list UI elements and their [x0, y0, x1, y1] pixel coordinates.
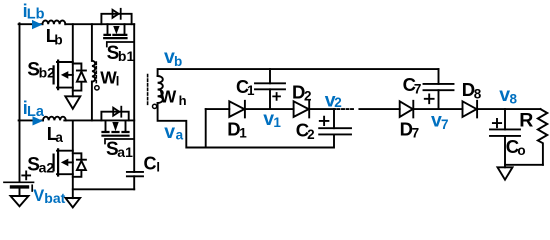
inductor La [43, 117, 66, 121]
ground output [498, 167, 513, 179]
antiparallel diode loop of S_b1 [101, 9, 131, 24]
ground under battery [11, 196, 29, 206]
body diode of S_a2 [73, 153, 86, 177]
svg-text:a2: a2 [39, 160, 55, 176]
capacitor C2 [319, 109, 351, 147]
diode D8 [463, 101, 478, 118]
wire bottom clamp return [73, 188, 134, 190]
svg-text:1: 1 [273, 115, 281, 130]
svg-text:a: a [176, 128, 184, 143]
capacitor C7 [424, 69, 454, 109]
wire S_a2 branch vertical [72, 120, 74, 198]
svg-text:2: 2 [304, 89, 312, 104]
svg-text:2: 2 [334, 95, 342, 110]
svg-text:b: b [54, 32, 62, 47]
svg-text:b1: b1 [118, 48, 135, 64]
capacitor C1 [255, 69, 285, 109]
svg-text:W: W [100, 68, 117, 88]
svg-text:V: V [33, 187, 44, 205]
wire v_b rail [158, 69, 439, 76]
diode D7 [400, 101, 414, 118]
svg-text:b: b [174, 54, 182, 69]
wire v_a routing [158, 103, 334, 148]
wire S_b2 branch vertical [72, 24, 74, 96]
capacitor C_l [127, 172, 143, 189]
wire top phase-b rail [19, 23, 135, 25]
ground under S_a2 [66, 198, 81, 207]
antiparallel diode loop of S_a1 [101, 107, 128, 121]
svg-text:bat: bat [44, 190, 65, 206]
wire clamp vertical (S_b1/S_a1 right to C_l) [133, 24, 135, 172]
capacitor Co [490, 109, 520, 167]
core dashes W_h [147, 75, 149, 107]
polarity dot W_l [95, 86, 99, 90]
svg-text:R: R [519, 109, 533, 131]
polarity dot W_h [153, 104, 157, 108]
diode D2 [294, 101, 310, 118]
transistor S_a2 [54, 149, 73, 175]
transistor S_b2 [54, 61, 73, 90]
current arrow iLa [33, 116, 44, 125]
body diode of S_b2 [73, 64, 86, 91]
diode D1 [229, 101, 245, 118]
svg-text:7: 7 [441, 117, 449, 132]
svg-text:l: l [156, 160, 160, 175]
svg-text:v: v [164, 121, 175, 143]
current arrow iLb [32, 20, 42, 29]
inductor Lb [43, 21, 66, 25]
svg-text:l: l [116, 74, 120, 89]
svg-text:2: 2 [307, 127, 315, 142]
wire dotted continuation [338, 108, 356, 110]
svg-text:a: a [55, 130, 63, 145]
winding W_h [158, 76, 163, 103]
svg-text:8: 8 [510, 92, 518, 107]
wire D1 anode riser [205, 109, 207, 147]
svg-text:a1: a1 [117, 144, 133, 160]
svg-text:W: W [160, 87, 177, 107]
core dashes W_l [95, 62, 97, 84]
svg-text:8: 8 [474, 86, 482, 101]
winding W_l [92, 61, 95, 82]
wire left rail from battery to Lb wire [19, 23, 21, 182]
svg-text:o: o [517, 143, 525, 158]
wire phase-a rail (La row) [19, 119, 135, 121]
wire output bottom [505, 164, 543, 166]
battery V_bat [4, 172, 34, 196]
svg-text:h: h [179, 93, 187, 108]
svg-text:7: 7 [412, 126, 420, 141]
svg-text:Lb: Lb [27, 7, 45, 23]
svg-text:b2: b2 [39, 65, 56, 81]
wire multiplier chain [206, 108, 541, 110]
wire W_l top lead [91, 24, 93, 120]
svg-text:C: C [144, 154, 157, 174]
transistor S_b1 [104, 24, 133, 46]
svg-text:7: 7 [414, 81, 422, 96]
svg-text:1: 1 [247, 83, 255, 98]
svg-text:1: 1 [239, 126, 247, 141]
transistor S_a1 [103, 120, 135, 143]
resistor R [538, 109, 548, 165]
ground under S_b2 [65, 96, 80, 109]
svg-text:La: La [27, 104, 45, 120]
